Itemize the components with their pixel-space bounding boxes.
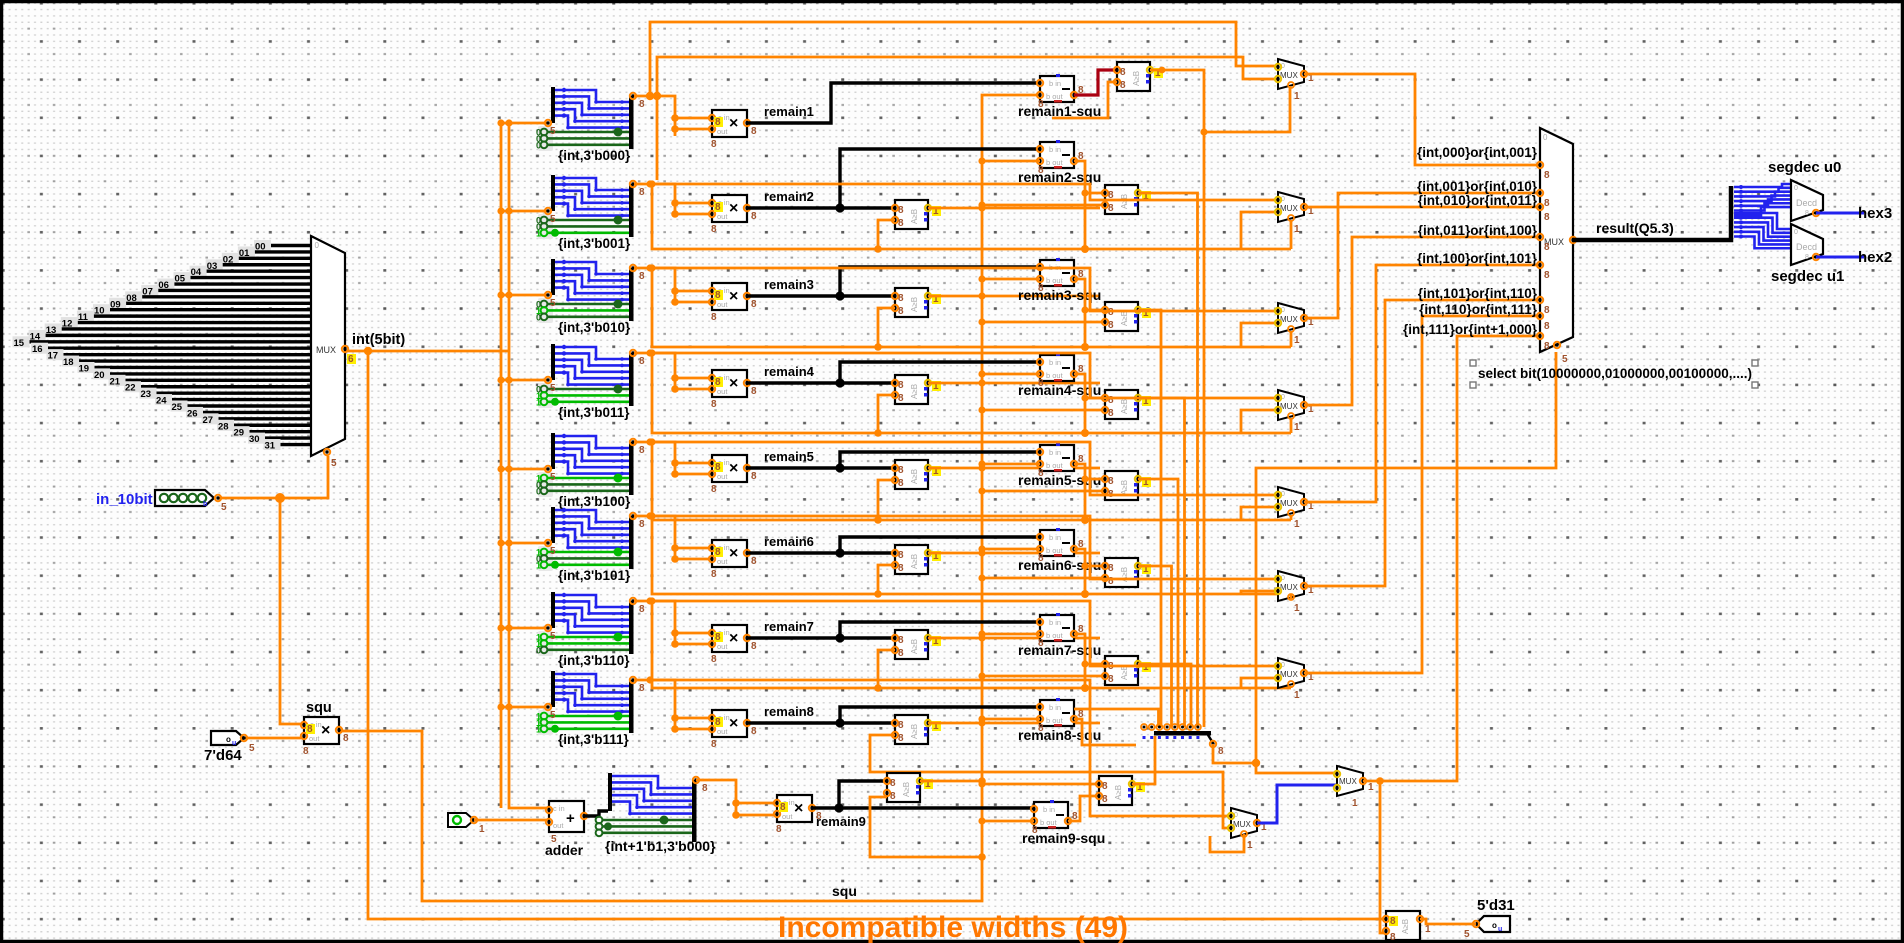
svg-text:25: 25 [172,402,183,413]
junction jr3b [671,298,679,306]
svg-text:select bit(10000000,01000000,0: select bit(10000000,01000000,00100000,..… [1478,366,1752,381]
wire row8 bundle [1074,709,1159,727]
wire remain4-squ out drop [1074,374,1085,433]
wire squ feed to remain6-squ [982,548,1040,551]
svg-text:8: 8 [1108,408,1114,419]
svg-text:MUX: MUX [1233,820,1251,829]
junction j-rail7 [648,597,655,604]
junction j-clo7 [978,634,985,641]
svg-text:15: 15 [14,338,25,349]
junction j-int [364,347,372,355]
svg-text:8: 8 [639,187,645,198]
svg-text:b in: b in [1043,805,1055,814]
svg-text:8: 8 [1805,254,1809,261]
svg-text:8: 8 [898,720,904,731]
junction j-sel1b [505,207,512,214]
svg-text:remain7: remain7 [764,619,814,634]
svg-text:8: 8 [1390,932,1396,943]
junction jr2b [671,210,679,218]
svg-text:A≥B: A≥B [1120,311,1129,326]
svg-text:8: 8 [711,569,717,580]
wire stub cmp-right4 in1 [1085,397,1105,400]
svg-text:8: 8 [1805,210,1809,217]
svg-text:b out: b out [1046,716,1064,725]
svg-text:29: 29 [234,428,245,439]
bus combiner {int,3'b000} [536,87,645,163]
svg-text:A≥B: A≥B [910,297,919,312]
svg-text:{int,000}or{int,001}: {int,000}or{int,001} [1417,145,1538,160]
junction jr1a [671,114,679,122]
junction jr6a [671,544,679,552]
svg-text:8: 8 [898,733,904,744]
svg-text:28: 28 [218,421,229,432]
svg-text:b in: b in [1049,145,1061,154]
wire cmpL5 out [928,467,1100,470]
multiplier remain6 [709,540,757,580]
svg-text:u: u [1498,926,1502,933]
adder [545,801,587,858]
junction jr5a [671,459,679,467]
junction jr9b [732,811,740,819]
wire net b011.out to remain4 inputs [634,353,675,391]
svg-text:5: 5 [550,298,556,309]
wire stub remain4 in1 [675,377,712,380]
comparator cmp-right remain6 [1102,558,1151,587]
svg-text:8: 8 [1120,80,1126,91]
comparator cmp remain1 [1114,62,1163,91]
wire cmpL8 out [928,722,1100,725]
wire row8 rail [870,735,1231,828]
wire net b000.out riser/top run [650,22,1278,96]
subtractor remain6-squ [1037,528,1084,564]
junction j-bh7 [1081,684,1089,692]
svg-text:5: 5 [550,546,556,557]
comparator cmp-a remain9 [884,773,933,802]
bus combiner {int,3'b110} [536,592,645,668]
svg-text:b in: b in [1049,618,1061,627]
svg-text:{int,3'b110}: {int,3'b110} [558,653,630,668]
svg-text:{int,010}or{int,011}: {int,010}or{int,011} [1418,193,1538,208]
svg-text:A≥B: A≥B [910,469,919,484]
comparator cmp-left remain2 [892,200,941,229]
svg-text:MUX: MUX [1280,315,1298,324]
svg-text:8: 8 [303,746,309,757]
wire stub remain8 in1 [675,717,712,720]
subtractor remain5-squ [1037,443,1084,479]
svg-text:8: 8 [715,290,721,301]
wire rail row7 [652,601,1291,688]
wire mux3 out to bigmux in2 [1304,193,1540,318]
junction j-clo3 [978,292,985,299]
multiplier remain7 [709,625,757,665]
wire stub remain9 in2 [736,814,777,817]
wire select stub {int,3'b010} [501,294,548,297]
wire cmpL4 in2 hook [878,395,895,433]
junction j-hook2 [874,245,882,253]
svg-text:A≥B: A≥B [910,554,919,569]
wire select net from joiner [1213,352,1556,763]
svg-text:5'd31: 5'd31 [1477,897,1515,914]
wire squ feed to remain7-squ [982,633,1040,636]
svg-text:remain6: remain6 [764,534,814,549]
svg-text:5: 5 [331,458,337,469]
junction j-cr27 [978,672,985,679]
svg-text:8: 8 [898,478,904,489]
mux u-mux7 [1275,658,1314,701]
junction j-bd2 [1081,189,1088,196]
junction jr8a [671,714,679,722]
comparator bottom (width check) [1383,911,1431,943]
wire stub cmp-right2 in1 [1085,192,1105,195]
wire select stub {int,3'b001} [501,210,548,213]
wire rail row2 [652,184,1291,249]
comparator cmp-left remain6 [892,545,941,574]
wire cmpL6 in2 hook [878,565,895,594]
svg-text:6: 6 [348,354,354,365]
svg-text:0: 0 [315,241,320,250]
wire net b000 to remain1 inputs [634,96,675,136]
svg-text:1: 1 [1247,840,1253,851]
wire mux8 to mux9 (blue) [1257,785,1337,823]
multiplier remain2 [709,195,757,235]
svg-text:squ: squ [306,700,332,716]
svg-text:8: 8 [1544,341,1550,352]
svg-text:8: 8 [715,717,721,728]
svg-text:MUX: MUX [1280,499,1298,508]
wire mux5 in1 feed [650,442,1278,495]
svg-text:{int+1'b1,3'b000}: {int+1'b1,3'b000} [605,838,716,854]
svg-text:8: 8 [898,205,904,216]
subtractor remain8-squ [1037,698,1084,734]
svg-text:8: 8 [639,519,645,530]
wire cmpL4 out [928,382,1100,385]
svg-text:8: 8 [1102,781,1108,792]
wire net carry to adder [474,819,549,822]
svg-text:b in: b in [1049,448,1061,457]
svg-text:8: 8 [898,293,904,304]
wire register select bus vertical A [500,124,503,808]
svg-text:×: × [729,288,738,305]
junction j-cr23 [978,318,985,325]
svg-text:remain9-squ: remain9-squ [1022,830,1105,846]
svg-text:×: × [729,460,738,477]
svg-text:{int,100}or{int,101}: {int,100}or{int,101} [1417,251,1538,266]
svg-text:8: 8 [751,386,757,397]
wire rail to mux4 in2 [1241,410,1278,433]
subtractor remain9-squ [1031,800,1078,836]
svg-text:A≥B: A≥B [1132,71,1141,86]
svg-text:A≥B: A≥B [1114,785,1123,800]
svg-text:int(5bit): int(5bit) [352,332,405,348]
svg-text:7'd64: 7'd64 [204,747,242,764]
svg-text:out: out [717,642,728,651]
wire net 7'd64 to squ [244,737,304,740]
svg-text:b out: b out [1046,461,1064,470]
junction j-clo5 [978,464,985,471]
svg-text:A≥B: A≥B [910,384,919,399]
svg-text:8: 8 [639,445,645,456]
svg-text:{int,101}or{int,110}: {int,101}or{int,110} [1418,286,1538,301]
svg-text:{int,3'b001}: {int,3'b001} [558,236,631,251]
wire hex3 (blue) [1816,212,1864,215]
svg-text:segdec u0: segdec u0 [1768,159,1841,176]
svg-text:8: 8 [715,117,721,128]
svg-text:1: 1 [1425,924,1431,935]
wire mux7 out to bigmux in7 [1304,316,1540,673]
svg-text:5: 5 [1562,354,1568,365]
svg-text:o: o [1492,921,1497,930]
svg-text:8: 8 [780,802,786,813]
wire stub cmp-right3 in1 [1085,309,1105,312]
svg-text:5: 5 [550,631,556,642]
svg-text:Incompatible widths (49): Incompatible widths (49) [778,911,1128,943]
wire stub remain2 in2 [675,213,712,216]
svg-text:{int,001}or{int,010}: {int,001}or{int,010} [1417,179,1538,194]
svg-text:remain4: remain4 [764,364,815,379]
svg-text:×: × [794,800,803,817]
wire cmp-right4 out to bundle [1138,398,1185,727]
svg-text:b out: b out [1046,158,1064,167]
svg-text:8: 8 [1544,212,1550,223]
wire mux5 select hook [1290,515,1293,520]
svg-text:out: out [717,212,728,221]
svg-text:17: 17 [48,351,59,362]
junction j-rail2 [648,180,655,187]
svg-text:×: × [729,715,738,732]
svg-text:8: 8 [711,739,717,750]
svg-text:{int,011}or{int,100}: {int,011}or{int,100} [1418,223,1538,238]
wire cmp-right3 out to bundle [1138,310,1161,727]
input port in_10bit [96,490,227,513]
svg-text:8: 8 [1544,242,1550,253]
svg-text:8: 8 [1108,320,1114,331]
svg-text:5: 5 [550,126,556,137]
svg-text:b out: b out [1046,92,1064,101]
wire cmpL7 out [928,637,1100,640]
wire rail row5 [652,442,1291,520]
wire mux5 out to bigmux in5 [1304,265,1540,502]
svg-text:b out: b out [1046,276,1064,285]
wire remain5-squ out drop [1074,464,1085,520]
junction j-mi7 [646,597,653,604]
junction j-clo2 [978,204,985,211]
svg-text:1: 1 [1294,603,1300,614]
svg-text:hex2: hex2 [1858,249,1892,266]
svg-text:8: 8 [1108,563,1114,574]
wire mux1 out to bigmux in1 [1304,74,1540,165]
svg-text:8: 8 [639,99,645,110]
svg-text:8: 8 [702,783,708,794]
svg-text:0: 0 [536,140,541,150]
mux output-selector 8:1 [1537,128,1576,365]
wire cmp-right3 in2 feed [982,321,1105,324]
wire result(Q5.3) (black) [1573,186,1731,240]
svg-text:{int,111}or{int+1,000}: {int,111}or{int+1,000} [1403,322,1538,337]
svg-text:o: o [226,735,231,744]
junction j-rail3 [648,264,655,271]
svg-text:8: 8 [639,356,645,367]
junction j-mi4 [646,349,653,356]
wire mux9 in1 feed [1256,763,1337,773]
bus combiner {int,3'b100} [536,433,645,509]
wire remain9-squ out to cmp-b [1068,796,1099,821]
junction j-sel3 [497,376,504,383]
svg-text:8: 8 [890,791,896,802]
svg-text:1: 1 [536,724,541,734]
multiplier remain5 [709,455,757,495]
wire cmpL6 out [928,552,1100,555]
junction j-sel4 [497,465,504,472]
wire squ feed to remain5-squ [982,463,1040,466]
svg-text:×: × [729,375,738,392]
svg-text:{int,3'b101}: {int,3'b101} [558,568,631,583]
junction jr5b [671,470,679,478]
junction jr4a [671,374,679,382]
svg-text:remain9: remain9 [816,814,866,829]
wire stub remain9 in1 [736,802,777,805]
svg-text:×: × [729,115,738,132]
svg-text:8: 8 [898,635,904,646]
svg-text:0: 0 [536,312,541,322]
junction j-sel7b [505,703,512,710]
svg-text:{int,3'b111}: {int,3'b111} [558,732,629,747]
mux u-mux6 [1275,571,1314,614]
svg-text:+: + [566,810,575,827]
wire squ feed remain9-squ [982,820,1034,823]
wire cmp-right7 out to bundle [1138,664,1191,727]
wire remain2-squ out drop [1074,161,1085,249]
junction j-sel-a [1252,759,1260,767]
svg-text:8: 8 [639,271,645,282]
junction j-sel6b [505,624,512,631]
wire cmp-right2 in2 feed [982,204,1105,207]
wire remain6 (black) [747,551,895,554]
wire mux2 select hook [1290,220,1293,249]
svg-text:8: 8 [1102,794,1108,805]
comparator cmp-left remain8 [892,715,941,744]
junction j-sel5b [505,539,512,546]
wire select stub {int,3'b000} [501,122,548,125]
svg-text:1: 1 [1294,422,1300,433]
wire mux8 select hook [1210,834,1244,852]
junction j-clo8 [978,719,985,726]
wire remain7-squ out drop [1074,634,1085,688]
svg-text:MUX: MUX [1280,71,1298,80]
junction j-sel1 [497,207,504,214]
subtractor remain7-squ [1037,613,1084,649]
input port 1-bit (adder carry) [448,813,485,835]
wire drop to bottom comparator [1380,781,1386,933]
svg-text:8: 8 [715,632,721,643]
svg-text:hex3: hex3 [1858,205,1892,222]
mux u-mux2 [1275,192,1314,235]
svg-text:b in: b in [1049,533,1061,542]
svg-text:out: out [782,812,793,821]
wire remain9 (black) [812,806,1034,809]
svg-text:8: 8 [890,778,896,789]
decoder segdec u1 [1771,224,1844,285]
mux u-mux9 [1334,766,1374,809]
svg-text:c in: c in [553,804,565,813]
svg-text:out: out [309,734,320,743]
svg-text:18: 18 [63,357,74,368]
wire squ feed to remain2-squ [982,160,1040,163]
wire mux7 in1 feed [650,601,1278,666]
svg-text:8: 8 [1120,67,1126,78]
wire remain3 (black) [747,294,895,297]
wire cmp-right4 in2 feed [982,409,1105,412]
wire cmpL3 in2 hook [878,308,895,347]
svg-text:26: 26 [187,408,198,419]
comparator cmp-left remain4 [892,375,941,404]
wire remain5 (black) [747,466,895,469]
junction j-sel2 [497,291,504,298]
wire stub remain2 in1 [675,202,712,205]
wire cmp9b out to joiner [1132,736,1155,784]
svg-text:8: 8 [715,547,721,558]
mux u-mux8 [1228,808,1267,851]
svg-text:8: 8 [751,641,757,652]
wire net b100.out to remain5 inputs [634,442,675,476]
svg-text:8: 8 [898,550,904,561]
junction j-bh5 [1081,516,1089,524]
svg-text:remain8: remain8 [764,704,814,719]
junction j-sel7 [497,703,504,710]
junction jr3a [671,287,679,295]
svg-text:in_10bit: in_10bit [96,491,153,508]
svg-text:8: 8 [898,648,904,659]
multiplier remain4 [709,370,757,410]
svg-text:8: 8 [751,211,757,222]
svg-text:remain2: remain2 [764,189,814,204]
junction j-bh4 [1081,429,1089,437]
svg-text:8: 8 [1544,305,1550,316]
svg-text:1: 1 [536,560,541,570]
svg-text:u: u [232,740,236,747]
wire cmp-right2 out to bundle [1138,193,1198,727]
junction j-sq9 [978,817,985,824]
wire remain2 (black) [747,206,895,209]
wire cmp9a in2 feed [870,797,982,857]
comparator cmp-right remain2 [1102,185,1151,214]
svg-text:8: 8 [1544,321,1550,332]
junction jr4b [671,385,679,393]
wire cmpL2 in2 hook [878,220,895,249]
svg-text:out: out [717,300,728,309]
svg-text:8: 8 [715,462,721,473]
svg-text:1: 1 [1352,798,1358,809]
svg-text:8: 8 [715,202,721,213]
multiplier remain3 [709,283,757,323]
bus joiner select bits [1141,724,1224,757]
svg-text:{int,3'b011}: {int,3'b011} [558,405,630,420]
wire mux1 select hook [1204,86,1290,132]
wire cmp-right5 in2 feed [982,490,1105,493]
wire mux7 select hook [1290,686,1293,688]
junction j-sel0b [505,119,512,126]
wire remain3-squ out drop [1074,279,1085,347]
wire remain7 (black) [747,636,895,639]
junction j-rail5 [648,438,655,445]
wire rail to mux5 in2 [1241,507,1278,520]
svg-text:8: 8 [343,733,349,744]
junction jr1b [671,125,679,133]
junction j-mi8 [646,676,653,683]
svg-text:segdec u1: segdec u1 [1771,268,1844,285]
junction j-sq4 [978,370,985,377]
svg-text:out: out [553,821,564,830]
svg-text:b in: b in [1049,703,1061,712]
